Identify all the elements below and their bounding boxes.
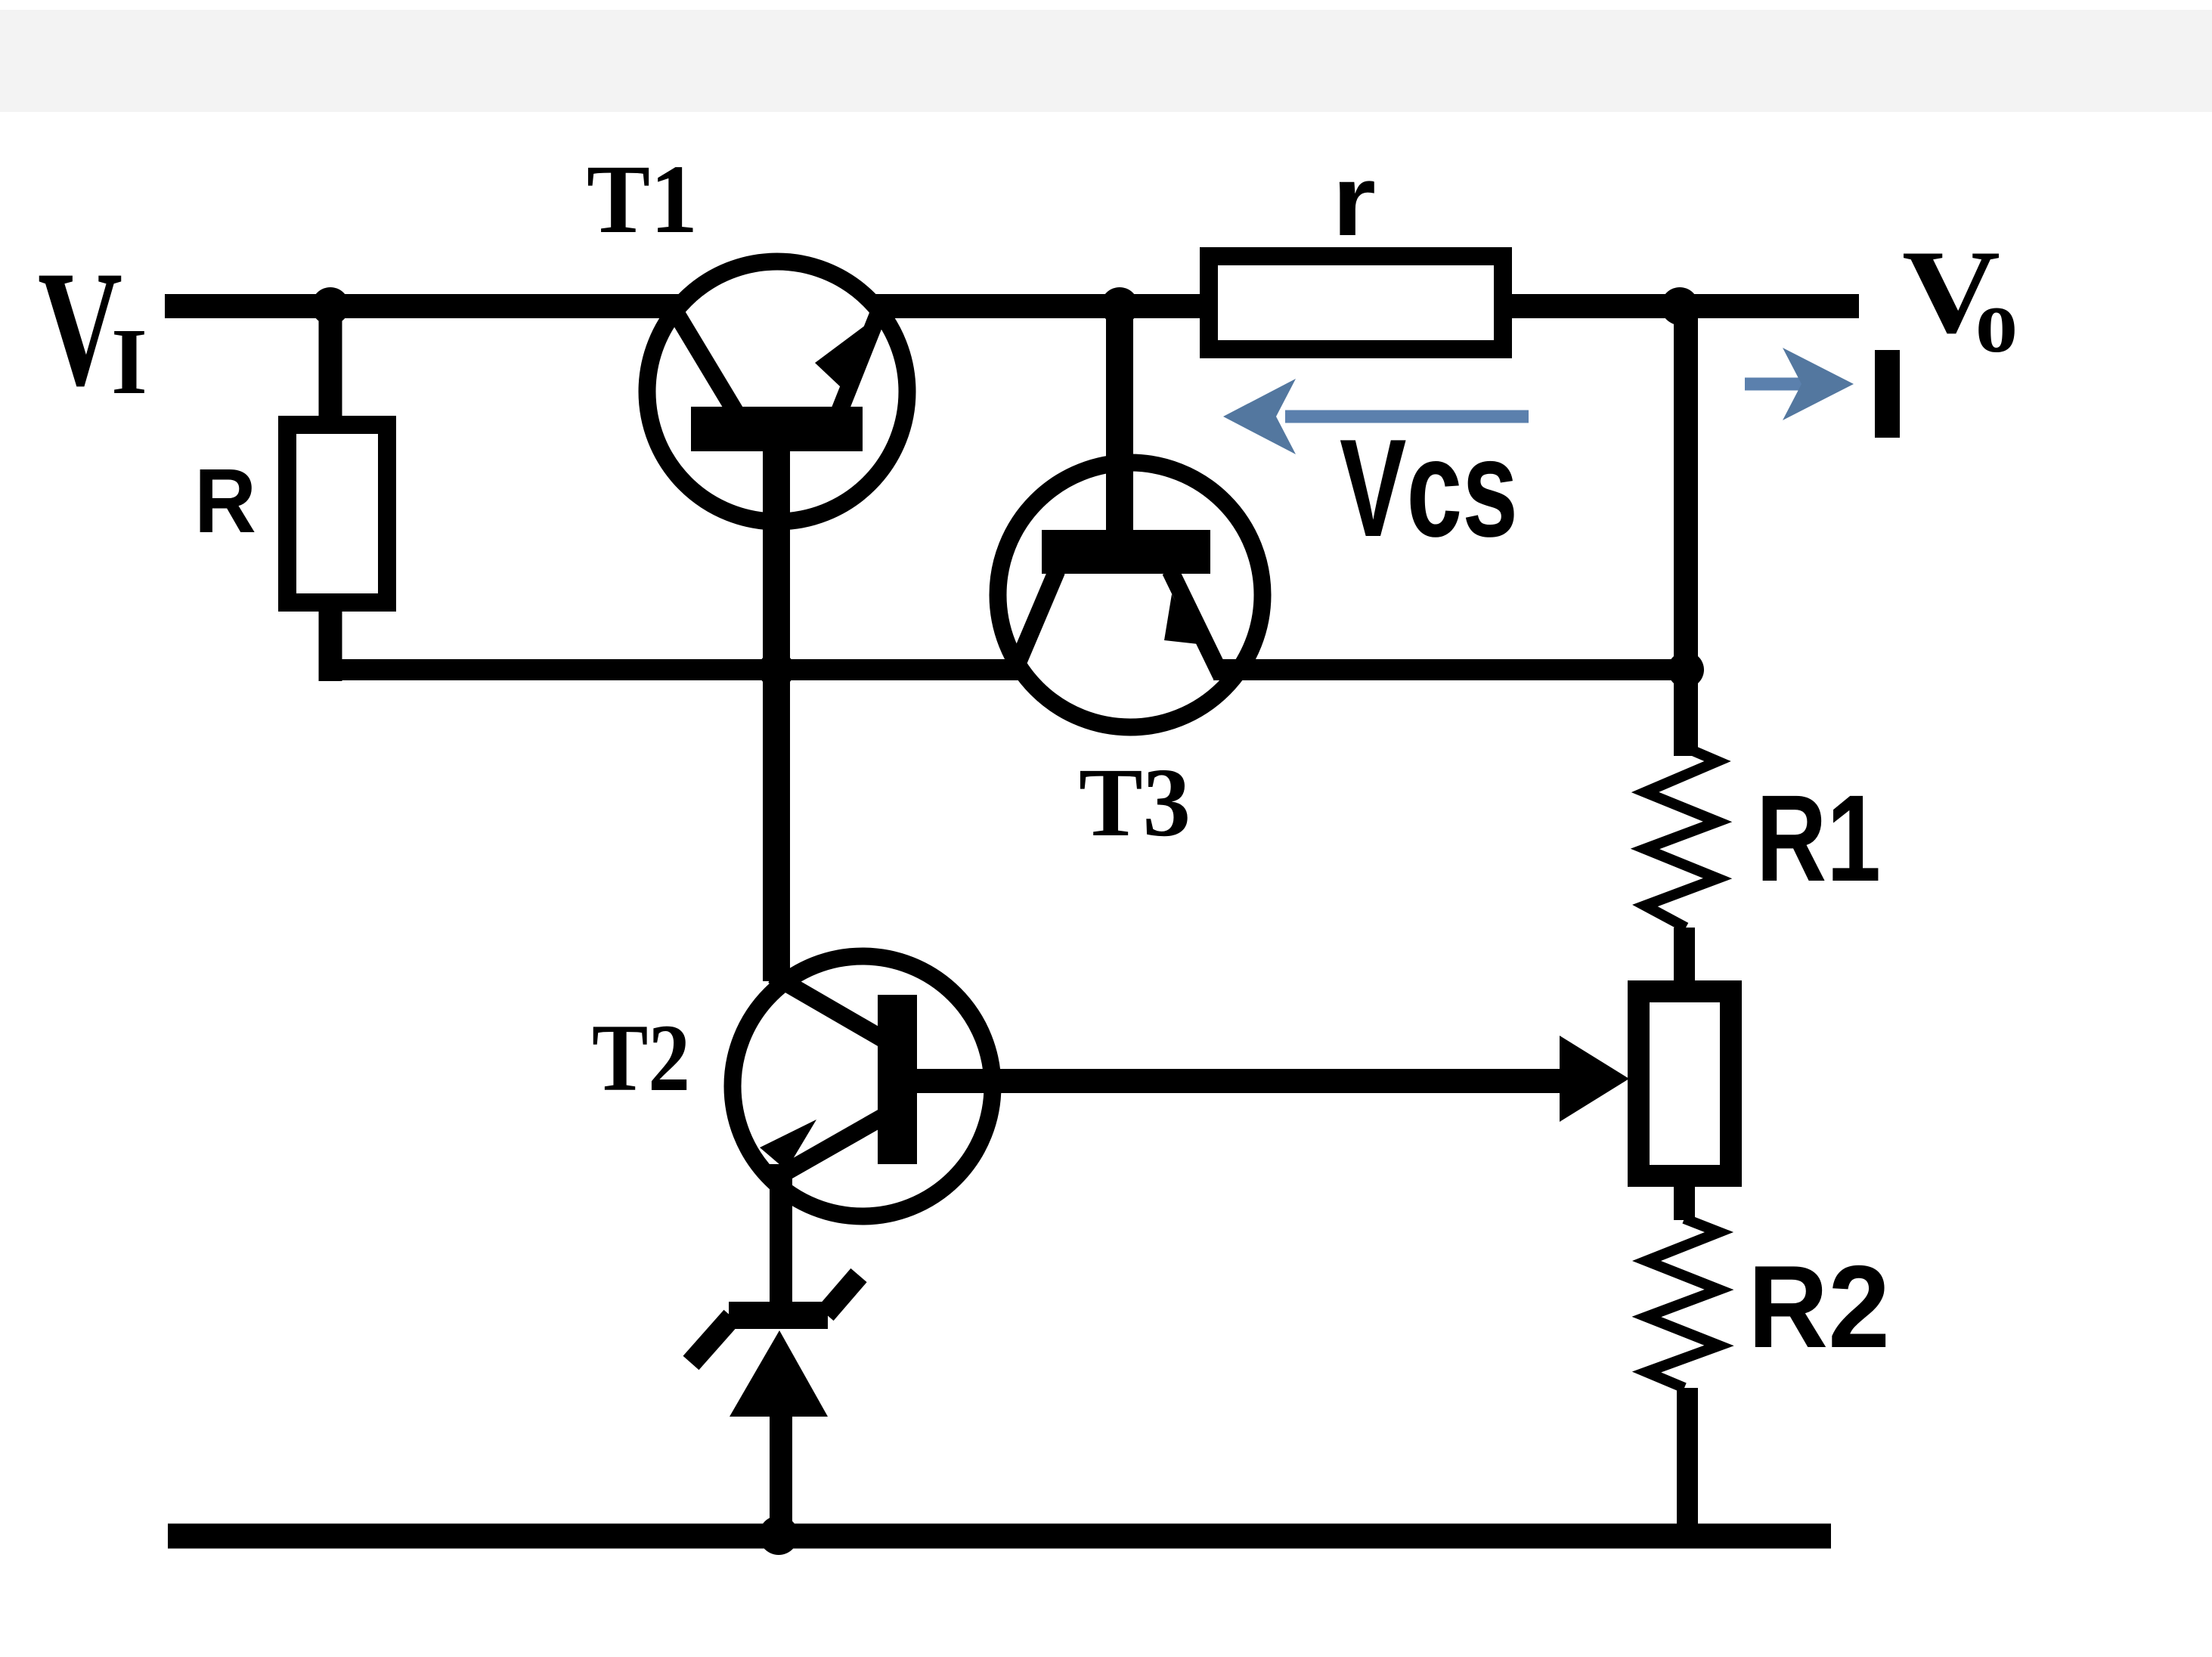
svg-text:R1: R1 — [1756, 769, 1881, 907]
wire bottom ground rail — [168, 1524, 1831, 1549]
wire T1 base down — [763, 446, 790, 981]
transistor T2 — [733, 956, 993, 1216]
svg-text:T3: T3 — [1079, 748, 1191, 857]
wire zener to ground rail — [770, 1417, 792, 1536]
svg-text:T1: T1 — [587, 145, 698, 254]
svg-text:Vcs: Vcs — [1340, 410, 1518, 565]
wire T3 base — [1106, 306, 1133, 537]
label I output — [1875, 350, 1900, 438]
wire top rail right (T1 to Vo) — [875, 294, 1859, 318]
node mid rail x T1 base — [758, 652, 795, 688]
resistor R1 zigzag — [1645, 748, 1718, 928]
wire R2 bottom stub — [1677, 1388, 1698, 1536]
wire T2 base to pot — [917, 1069, 1563, 1093]
wire R top stub — [319, 306, 342, 434]
node junction T3 base — [1101, 287, 1139, 325]
wire Vo column vertical — [1674, 306, 1698, 756]
transistor T1 — [647, 262, 907, 522]
svg-text:o: o — [1975, 270, 2018, 372]
svg-text:I: I — [111, 310, 147, 414]
node junction Vo column — [1661, 287, 1699, 325]
node junction above R — [311, 287, 349, 325]
Vcs arrow (blue) — [1223, 379, 1529, 454]
top scan band — [0, 10, 2212, 112]
wire T2 emitter down — [770, 1164, 792, 1315]
wire R1 bottom stub — [1674, 928, 1695, 984]
wire mid rail left — [319, 659, 1022, 680]
svg-text:V: V — [38, 237, 122, 420]
wire R bottom stub — [319, 602, 342, 681]
potentiometer wiper arrowhead — [1560, 1036, 1629, 1122]
wire top rail left (VI to T1) — [165, 294, 680, 318]
svg-text:R2: R2 — [1748, 1241, 1890, 1372]
wire R2 top stub — [1674, 1187, 1695, 1220]
resistor R2 zigzag — [1647, 1219, 1719, 1388]
resistor R — [287, 425, 387, 602]
I arrow (blue) — [1745, 348, 1854, 420]
zener diode — [691, 1275, 859, 1417]
resistor r — [1209, 256, 1503, 349]
node mid rail right end — [1668, 652, 1704, 688]
svg-text:r: r — [1332, 145, 1376, 257]
svg-text:R: R — [194, 449, 256, 552]
transistor T3 — [998, 463, 1262, 727]
wire mid rail right — [1213, 659, 1698, 680]
node ground junction — [759, 1516, 798, 1555]
svg-text:T2: T2 — [592, 1005, 690, 1111]
potentiometer box — [1639, 992, 1731, 1176]
